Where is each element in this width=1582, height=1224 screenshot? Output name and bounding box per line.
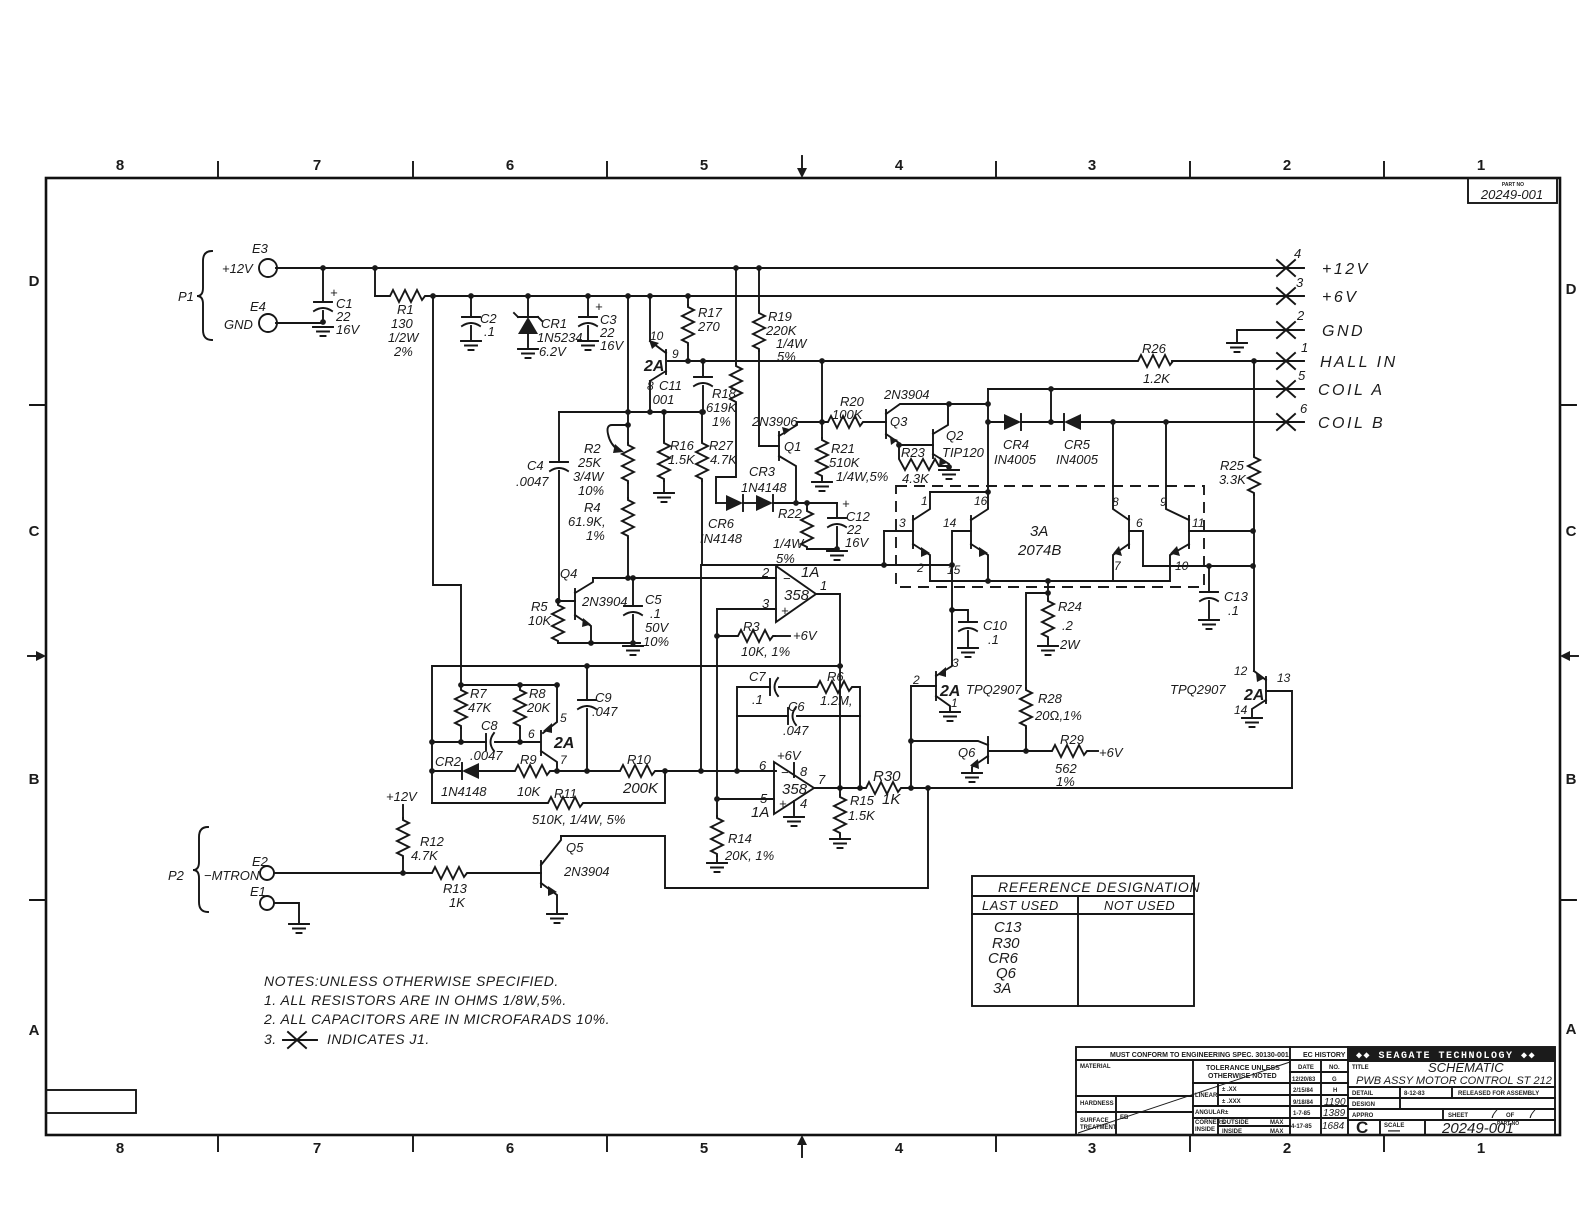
svg-text:TPQ2907: TPQ2907 [1170, 682, 1226, 697]
svg-text:2074B: 2074B [1017, 542, 1061, 559]
wire E1 to gnd [275, 903, 299, 922]
svg-text:6: 6 [506, 1140, 514, 1157]
svg-text:3/4W: 3/4W [573, 469, 605, 484]
svg-text:B: B [29, 771, 40, 788]
svg-text:4.7K: 4.7K [411, 848, 439, 863]
diode CR4 1N4005 [1004, 414, 1021, 430]
svg-text:7: 7 [313, 1140, 321, 1157]
svg-text:1/2W: 1/2W [388, 330, 420, 345]
svg-text:130: 130 [391, 316, 413, 331]
svg-text:1. ALL RESISTORS ARE IN OHMS 1: 1. ALL RESISTORS ARE IN OHMS 1/8W,5%. [264, 992, 567, 1008]
svg-text:4.7K: 4.7K [710, 452, 738, 467]
transistor Q3 2N3904 [885, 410, 887, 438]
ground (J1-2) [1236, 330, 1238, 342]
svg-text:200K: 200K [622, 780, 659, 797]
IC 3A 2074B dashed outline [896, 486, 1204, 587]
svg-text:2: 2 [1296, 308, 1305, 323]
svg-text:1: 1 [951, 696, 958, 710]
svg-text:1K: 1K [449, 895, 466, 910]
svg-text:DETAIL: DETAIL [1352, 1091, 1374, 1097]
svg-text:5: 5 [1298, 368, 1306, 383]
resistor R23 [896, 442, 902, 448]
svg-text:1/4W: 1/4W [773, 536, 805, 551]
svg-text:CR1: CR1 [541, 316, 567, 331]
svg-text:.1: .1 [484, 324, 495, 339]
border frame [46, 178, 1560, 1135]
svg-text:20Ω,1%: 20Ω,1% [1034, 708, 1082, 723]
J1 pin 1 HALL IN [1277, 353, 1295, 369]
svg-text:NOTES:UNLESS OTHERWISE SPECIFI: NOTES:UNLESS OTHERWISE SPECIFIED. [264, 973, 559, 989]
svg-text:2N3904: 2N3904 [563, 864, 610, 879]
svg-text:14: 14 [1234, 703, 1248, 717]
svg-text:1N4148: 1N4148 [441, 784, 487, 799]
svg-text:C: C [1356, 1118, 1368, 1137]
svg-text:1A: 1A [751, 804, 769, 821]
svg-text:ANGULAR±: ANGULAR± [1195, 1110, 1229, 1116]
capacitor C4 [558, 412, 560, 462]
svg-text:1K: 1K [882, 791, 901, 808]
node +12V drop to +6V rail [372, 265, 378, 271]
transistor 2A (pins 2,3,1) TPQ2907 [935, 672, 937, 700]
loop C7 / R6 [734, 768, 740, 774]
svg-text:SURFACE: SURFACE [1080, 1118, 1109, 1124]
svg-text:R11: R11 [554, 786, 577, 801]
J1 pin 4 +12V [1277, 260, 1295, 276]
svg-text:R13: R13 [443, 881, 468, 896]
svg-text:2: 2 [761, 565, 770, 580]
svg-text:LAST USED: LAST USED [982, 898, 1059, 913]
resistor R20 [826, 416, 865, 428]
svg-text:INSIDE: INSIDE [1195, 1127, 1215, 1133]
svg-text:3A: 3A [993, 980, 1011, 997]
svg-text:270: 270 [697, 319, 720, 334]
svg-text:+12V: +12V [1322, 261, 1370, 278]
svg-text:.1: .1 [650, 606, 661, 621]
svg-text:COIL A: COIL A [1318, 382, 1385, 399]
wire +6V to 2A emitter [647, 293, 653, 299]
terminal E4 [259, 314, 277, 332]
svg-text:7: 7 [1528, 1106, 1536, 1121]
svg-text:.001: .001 [649, 392, 674, 407]
svg-text:R29: R29 [1060, 732, 1084, 747]
potentiometer R2 [625, 422, 631, 428]
svg-text:GND: GND [1322, 323, 1365, 340]
transistor 3A-T1 (pins 3,1,2) [912, 516, 914, 548]
svg-text:CR6: CR6 [708, 516, 735, 531]
svg-text:20249-001: 20249-001 [1441, 1120, 1514, 1137]
svg-text:SCHEMATIC: SCHEMATIC [1428, 1060, 1504, 1075]
svg-text:R9: R9 [520, 752, 537, 767]
svg-text:16V: 16V [336, 322, 360, 337]
svg-text:61.9K,: 61.9K, [568, 514, 606, 529]
svg-text:5: 5 [700, 157, 708, 174]
svg-text:6: 6 [759, 758, 767, 773]
diode CR5 1N4005 [1064, 414, 1081, 430]
svg-text:16V: 16V [845, 535, 869, 550]
svg-text:3: 3 [1296, 275, 1304, 290]
svg-text:8: 8 [1112, 495, 1119, 509]
svg-text:1.2K: 1.2K [1143, 371, 1171, 386]
svg-text:1: 1 [921, 494, 928, 508]
svg-text:C: C [29, 523, 40, 540]
top strip [1076, 1059, 1348, 1061]
svg-text:10K: 10K [528, 613, 552, 628]
svg-text:REFERENCE DESIGNATION: REFERENCE DESIGNATION [998, 879, 1201, 895]
zone ticks left [30, 405, 46, 900]
wire R27 to op-amp pin6 [700, 565, 702, 771]
svg-text:10%: 10% [643, 634, 669, 649]
svg-text:IN4148: IN4148 [700, 531, 743, 546]
svg-text:OTHERWISE NOTED: OTHERWISE NOTED [1208, 1073, 1277, 1080]
svg-text:1389: 1389 [1323, 1108, 1346, 1119]
wire pin4 gnd [793, 801, 795, 815]
svg-text:10K, 1%: 10K, 1% [741, 644, 790, 659]
resistor R27 [699, 409, 705, 415]
diode CR3 1N4148 [743, 502, 756, 504]
svg-text:CORNERS: CORNERS [1195, 1120, 1225, 1126]
svg-text:20K: 20K [526, 700, 551, 715]
svg-text:3: 3 [1088, 157, 1096, 174]
svg-text:R1: R1 [397, 302, 414, 317]
resistor R29 [1050, 745, 1089, 757]
wire base line from R27 [702, 564, 952, 566]
svg-text:.0047: .0047 [470, 748, 503, 763]
resistor R8 [514, 688, 526, 728]
resistor R19 [756, 265, 762, 271]
svg-text:2: 2 [916, 561, 924, 575]
svg-text:Q3: Q3 [890, 414, 908, 429]
svg-text:1684: 1684 [1322, 1121, 1345, 1132]
svg-text:R4: R4 [584, 500, 601, 515]
svg-text:NOT USED: NOT USED [1104, 898, 1175, 913]
svg-text:MAX: MAX [1270, 1120, 1283, 1126]
svg-text:PWB ASSY MOTOR CONTROL ST 212: PWB ASSY MOTOR CONTROL ST 212 [1356, 1075, 1552, 1087]
bottom-left reference box [46, 1090, 136, 1113]
svg-text:4-17-85: 4-17-85 [1291, 1124, 1312, 1130]
svg-text:DESIGN: DESIGN [1352, 1102, 1375, 1108]
connector P2 brace [193, 827, 208, 912]
terminal E3 [259, 259, 277, 277]
svg-text:INDICATES J1.: INDICATES J1. [327, 1031, 430, 1047]
op-amp 1A (pins 2,3,1) [776, 566, 816, 622]
svg-text:7: 7 [818, 772, 826, 787]
svg-text:R8: R8 [529, 686, 546, 701]
wire +6V feed drop [430, 293, 436, 299]
svg-text:C10: C10 [983, 618, 1008, 633]
wire T1 base feed [883, 531, 885, 565]
svg-text:−MTRON: −MTRON [204, 868, 260, 883]
svg-text:1/4W,5%: 1/4W,5% [836, 469, 888, 484]
svg-text:3.3K: 3.3K [1219, 472, 1247, 487]
svg-text:+12V: +12V [222, 261, 254, 276]
svg-text:3: 3 [899, 516, 906, 530]
svg-text:3A: 3A [1030, 523, 1048, 540]
svg-text:EC HISTORY: EC HISTORY [1303, 1052, 1346, 1059]
svg-text:E2: E2 [252, 854, 269, 869]
svg-text:H: H [1333, 1088, 1337, 1094]
svg-text:P2: P2 [168, 868, 185, 883]
capacitor C8 [432, 741, 486, 743]
wire op-amp pin2 line [593, 577, 776, 579]
svg-text:9: 9 [1160, 495, 1167, 509]
transistor 3A-T4 (pins 9,11,10) [1188, 516, 1190, 548]
transistor 2A (pins 6,5,7) [540, 731, 542, 755]
svg-text:3.: 3. [264, 1031, 277, 1047]
svg-text:4: 4 [1294, 246, 1301, 261]
svg-text:CR3: CR3 [749, 464, 776, 479]
svg-text:Q6: Q6 [958, 745, 976, 760]
svg-text:+12V: +12V [386, 789, 418, 804]
svg-text:.1: .1 [988, 632, 999, 647]
svg-text:12: 12 [1234, 664, 1248, 678]
svg-text:C13: C13 [994, 919, 1022, 936]
svg-text:C11: C11 [659, 378, 682, 393]
resistor R24 [1047, 581, 1049, 599]
svg-text:2. ALL CAPACITORS ARE IN MICRO: 2. ALL CAPACITORS ARE IN MICROFARADS 10%… [263, 1011, 610, 1027]
svg-text:47K: 47K [468, 700, 492, 715]
wire pin5 line [717, 798, 774, 800]
svg-text:20249-001: 20249-001 [1480, 187, 1543, 202]
right center arrow [1570, 655, 1578, 657]
svg-text:OUTSIDE: OUTSIDE [1222, 1120, 1249, 1126]
svg-text:2: 2 [1283, 1140, 1291, 1157]
svg-text:Q4: Q4 [560, 566, 577, 581]
wire HALL IN line [668, 360, 1304, 362]
terminal E2 [260, 866, 274, 880]
svg-text:6: 6 [528, 727, 535, 741]
svg-text:20K, 1%: 20K, 1% [724, 848, 774, 863]
capacitor C10 [949, 607, 955, 613]
svg-text:C4: C4 [527, 458, 544, 473]
seagate bar [1348, 1047, 1555, 1062]
resistor R3 [714, 633, 720, 639]
transistor Q5 2N3904 [540, 861, 542, 887]
svg-text:R24: R24 [1058, 599, 1082, 614]
capacitor C6 [737, 715, 788, 717]
svg-text:16V: 16V [600, 338, 624, 353]
svg-text:+6V: +6V [777, 748, 802, 763]
svg-text:LINEAR: LINEAR [1195, 1093, 1218, 1099]
svg-text:9: 9 [672, 347, 679, 361]
svg-text:−: − [781, 765, 789, 780]
node Q2/Q3 collectors [946, 401, 952, 407]
left center arrow [28, 655, 36, 657]
svg-text:6: 6 [506, 157, 514, 174]
resistor R21 [821, 422, 823, 438]
svg-text:R28: R28 [1038, 691, 1063, 706]
wire pin16/coilA vertical [987, 389, 989, 508]
svg-text:R14: R14 [728, 831, 752, 846]
resistor R26 [1136, 355, 1175, 367]
svg-text:RELEASED FOR ASSEMBLY: RELEASED FOR ASSEMBLY [1458, 1091, 1539, 1097]
svg-text:R3: R3 [743, 619, 760, 634]
svg-text:DATE: DATE [1298, 1065, 1314, 1071]
svg-text:CR4: CR4 [1003, 437, 1029, 452]
svg-text:100K: 100K [832, 407, 864, 422]
capacitor C9 [584, 663, 590, 669]
svg-text:10: 10 [650, 329, 664, 343]
wire Q6 base to R29 [989, 750, 1050, 752]
wire COIL B segment with CR4/CR5 [988, 421, 1004, 423]
svg-text:−: − [783, 571, 791, 586]
svg-text:5%: 5% [776, 551, 795, 566]
svg-text:10K: 10K [517, 784, 541, 799]
transistor 3A-T3 (pins 6,8,7) [1128, 516, 1130, 548]
svg-text:R19: R19 [768, 309, 792, 324]
svg-text:1: 1 [1477, 1140, 1485, 1157]
capacitor C2 [468, 293, 474, 299]
resistor R25 [1251, 358, 1257, 364]
svg-text:.1: .1 [1228, 603, 1239, 618]
svg-text:—: — [1388, 1123, 1400, 1137]
svg-text:CR5: CR5 [1064, 437, 1091, 452]
svg-text:+6V: +6V [1322, 289, 1358, 306]
capacitor C1 [320, 265, 326, 271]
svg-text:D: D [29, 273, 40, 290]
resistor R16 [661, 409, 667, 415]
wire E2 to Q5 base [275, 872, 541, 874]
resistor R22 [804, 500, 810, 506]
resistor R10 [553, 770, 618, 772]
wire T3/T4 base tie line [1143, 565, 1253, 567]
svg-text:7: 7 [1114, 559, 1122, 573]
resistor R28 [1026, 593, 1048, 688]
svg-text:R23: R23 [901, 445, 926, 460]
svg-text:A: A [29, 1022, 40, 1039]
resistor R4 [627, 483, 629, 498]
diode CR6 1N4148 [716, 502, 726, 504]
wire inner top line [461, 684, 557, 686]
svg-text:4: 4 [895, 1140, 904, 1157]
svg-text:1N5234: 1N5234 [537, 330, 583, 345]
svg-text:GND: GND [224, 317, 253, 332]
capacitor C5 [630, 575, 636, 581]
svg-text:.0047: .0047 [516, 474, 549, 489]
wire output line to Q6 base node [814, 787, 1292, 789]
svg-text:C7: C7 [749, 669, 766, 684]
svg-text:2N3904: 2N3904 [581, 594, 628, 609]
svg-text:C: C [1566, 523, 1577, 540]
svg-text:OF: OF [1506, 1113, 1515, 1119]
resistor R12 [400, 870, 406, 876]
svg-text:B: B [1566, 771, 1577, 788]
svg-text:+: + [779, 796, 787, 811]
capacitor C13 [1206, 563, 1212, 569]
svg-text:TOLERANCE UNLESS: TOLERANCE UNLESS [1206, 1065, 1280, 1072]
svg-text:.047: .047 [592, 704, 618, 719]
svg-text:E3: E3 [252, 241, 269, 256]
svg-text:R26: R26 [1142, 341, 1167, 356]
terminal E1 [260, 896, 274, 910]
svg-text:± .XXX: ± .XXX [1222, 1099, 1241, 1105]
svg-text:+6V: +6V [793, 628, 818, 643]
resistor R5 [552, 603, 564, 643]
svg-text:R10: R10 [627, 752, 652, 767]
svg-text:358: 358 [784, 587, 810, 604]
svg-text:1N4148: 1N4148 [741, 480, 787, 495]
resistor R13 [430, 867, 469, 879]
svg-text:2A: 2A [643, 358, 664, 375]
wire +12V rail [276, 267, 1304, 269]
svg-text:R5: R5 [531, 599, 548, 614]
svg-text:R6: R6 [827, 669, 844, 684]
svg-text:2N3906: 2N3906 [751, 414, 798, 429]
J1 pin 5 COIL A [1277, 381, 1295, 397]
bottom row [1380, 1120, 1425, 1135]
svg-text:TIP120: TIP120 [942, 445, 985, 460]
svg-text:1.2M,: 1.2M, [820, 693, 853, 708]
svg-text:1%: 1% [1056, 774, 1075, 789]
svg-text:± .XX: ± .XX [1222, 1087, 1237, 1093]
svg-text:R17: R17 [698, 305, 723, 320]
svg-text:1A: 1A [801, 564, 819, 581]
resistor R17 [685, 293, 691, 299]
svg-text:5%: 5% [777, 349, 796, 364]
connector P1 brace [197, 251, 212, 340]
svg-text:6.2V: 6.2V [539, 344, 567, 359]
resistor R18 [733, 265, 739, 271]
svg-text:9/18/84: 9/18/84 [1293, 1100, 1314, 1106]
svg-text:C5: C5 [645, 592, 662, 607]
svg-text:R2: R2 [584, 441, 601, 456]
zener CR1 [525, 293, 531, 299]
svg-text:D: D [1566, 281, 1577, 298]
bottom center arrow [801, 1145, 803, 1157]
wire op1 output [816, 594, 840, 788]
svg-text:TITLE: TITLE [1352, 1065, 1369, 1071]
J1 pin 6 COIL B [1277, 414, 1295, 430]
svg-text:C6: C6 [788, 699, 805, 714]
capacitor C3 [585, 293, 591, 299]
svg-text:.2: .2 [1062, 618, 1074, 633]
svg-text:HALL IN: HALL IN [1320, 354, 1398, 371]
svg-text:R12: R12 [420, 834, 445, 849]
svg-text:14: 14 [943, 516, 957, 530]
svg-text:R22: R22 [778, 506, 803, 521]
resistor R14 [711, 816, 723, 856]
svg-text:.1: .1 [752, 692, 763, 707]
svg-text:2A: 2A [1243, 687, 1264, 704]
svg-text:8: 8 [800, 764, 808, 779]
svg-text:Q2: Q2 [946, 428, 964, 443]
transistor 3A-T2 (pins 14,16,15) [970, 516, 972, 548]
svg-text:1190: 1190 [1324, 1097, 1346, 1108]
svg-text:510K, 1/4W, 5%: 510K, 1/4W, 5% [532, 812, 625, 827]
svg-text:R21: R21 [831, 441, 855, 456]
zone ticks top [218, 162, 1384, 178]
svg-text:11: 11 [1192, 516, 1204, 530]
op-amp 1A (pins 6,5,7) [774, 762, 814, 814]
svg-text:MATERIAL: MATERIAL [1080, 1064, 1111, 1070]
svg-text:510K: 510K [829, 455, 861, 470]
svg-text:1: 1 [1477, 157, 1485, 174]
svg-text:1%: 1% [712, 414, 731, 429]
svg-text:6: 6 [1300, 401, 1308, 416]
svg-text:4: 4 [895, 157, 904, 174]
svg-text:TPQ2907: TPQ2907 [966, 682, 1022, 697]
svg-text:1-7-85: 1-7-85 [1293, 1111, 1311, 1117]
svg-text:R7: R7 [470, 686, 487, 701]
resistor R30 [864, 782, 903, 794]
node Q1 collector [793, 500, 799, 506]
svg-text:16: 16 [974, 494, 988, 508]
svg-text:3: 3 [1088, 1140, 1096, 1157]
svg-text:Q5: Q5 [566, 840, 584, 855]
svg-text:.047: .047 [783, 723, 809, 738]
wire +6V to R2 column [625, 293, 631, 299]
svg-text:7: 7 [560, 753, 568, 767]
svg-text:6: 6 [1136, 516, 1143, 530]
